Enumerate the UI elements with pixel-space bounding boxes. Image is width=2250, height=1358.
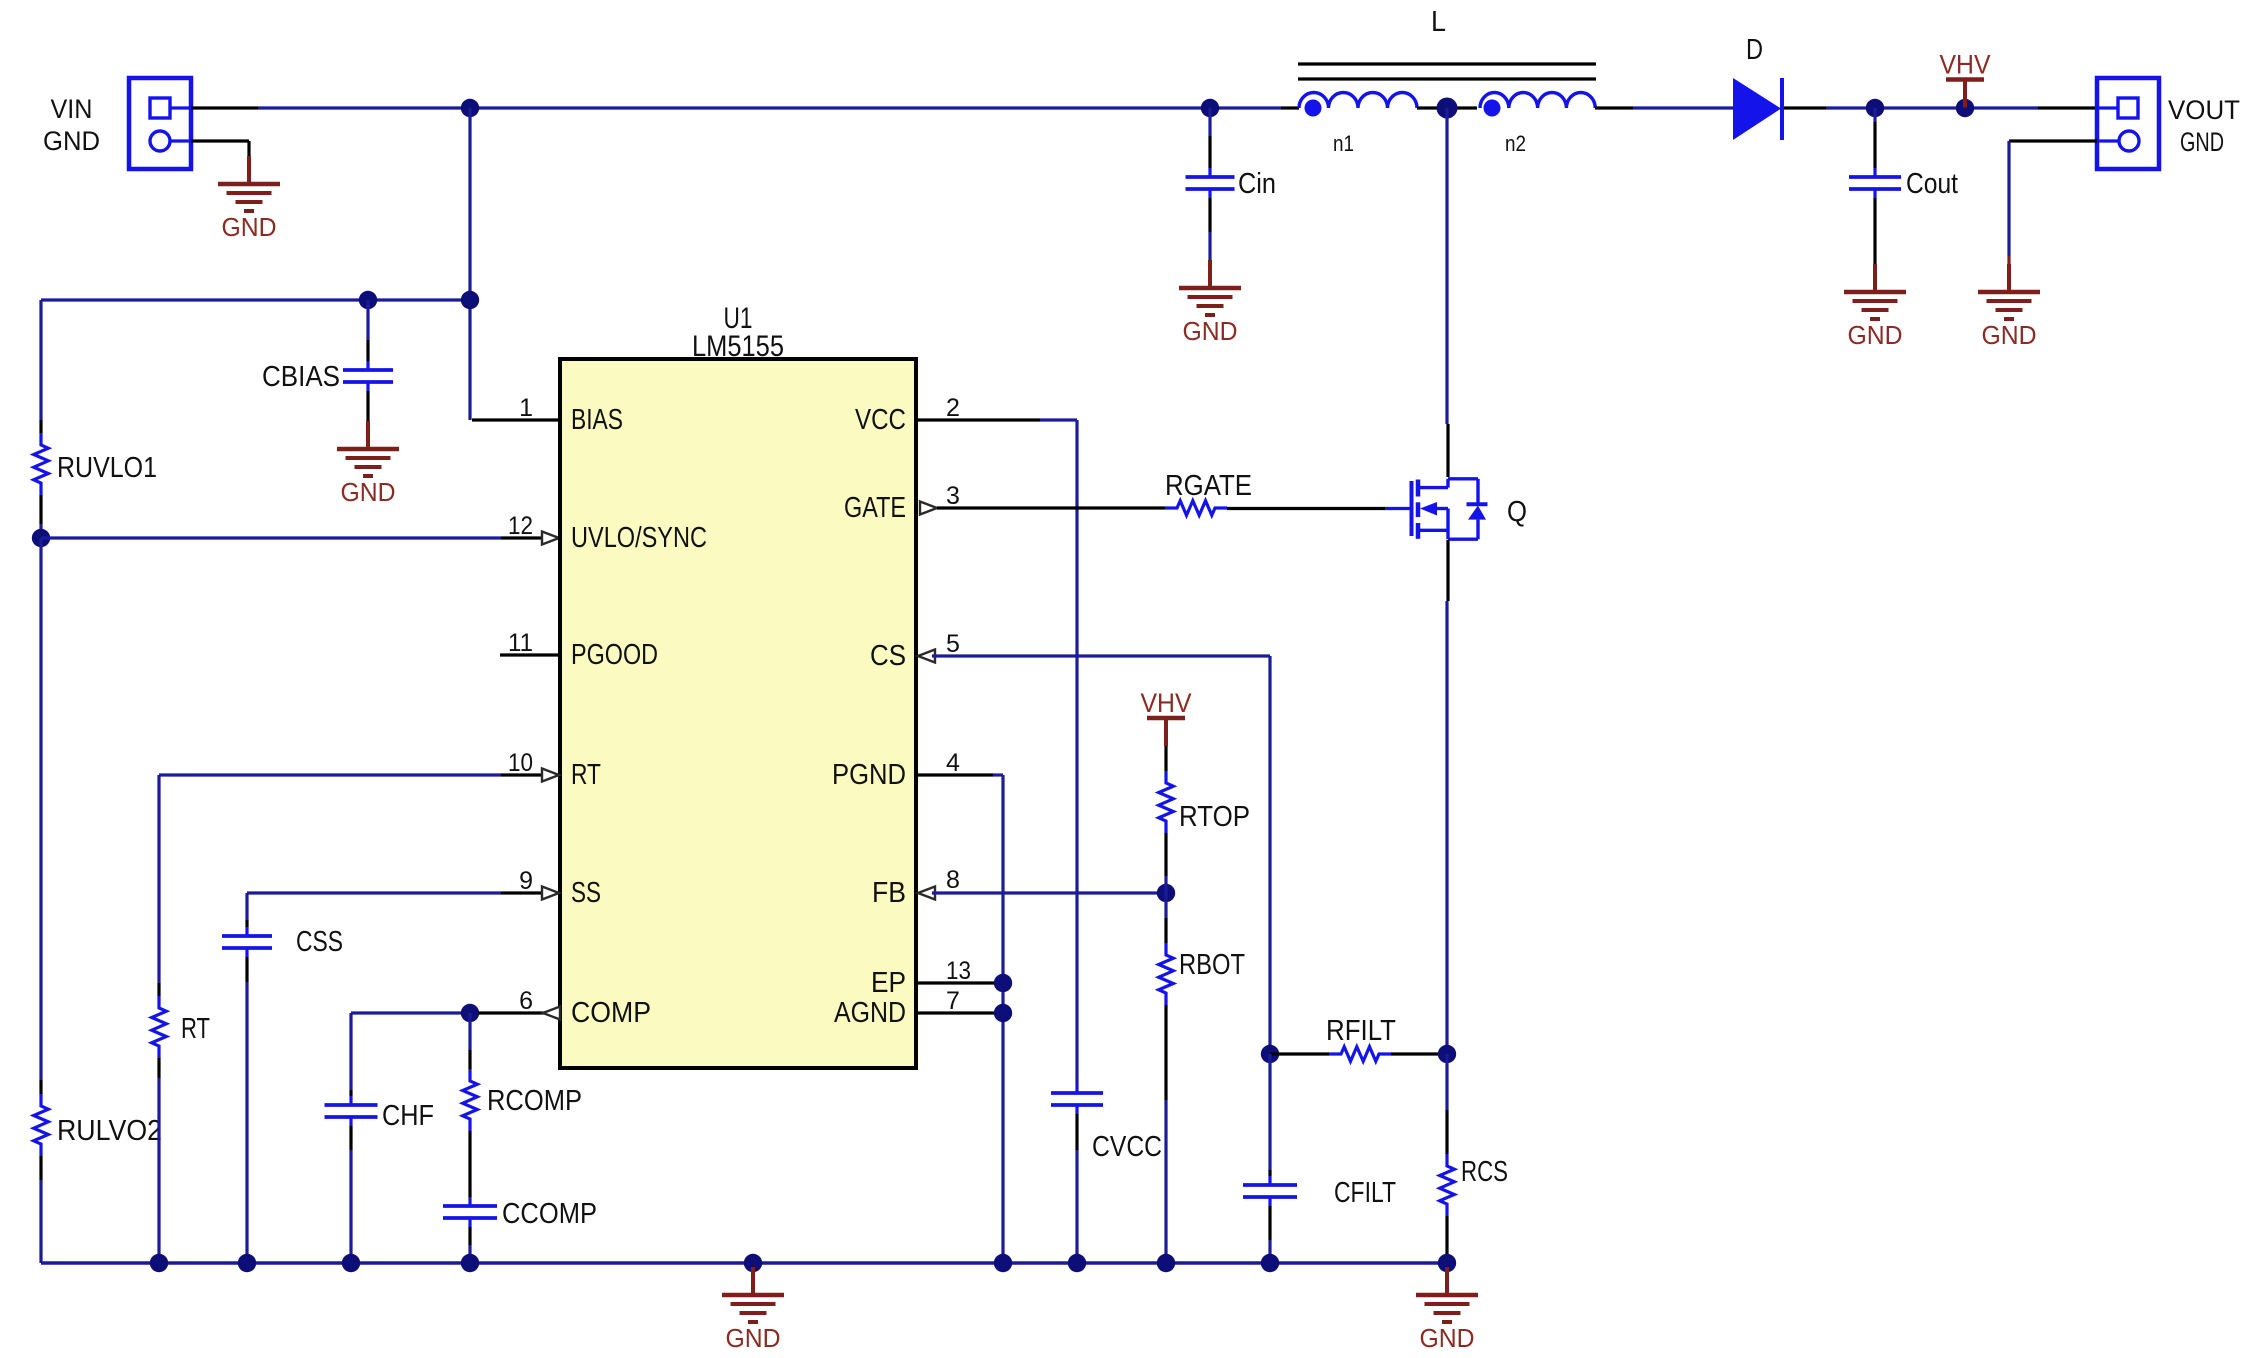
wire source down bbox=[1447, 540, 1448, 1054]
svg-text:GND: GND bbox=[726, 1325, 781, 1353]
wire pin1 BIAS stub bbox=[472, 418, 560, 421]
node junction rail GND tap bbox=[744, 1254, 762, 1272]
svg-text:13: 13 bbox=[946, 957, 971, 985]
svg-text:CHF: CHF bbox=[382, 1100, 434, 1132]
wire COMP stub bbox=[478, 1011, 546, 1014]
wire VOUT GND maroon stub bbox=[2007, 256, 2010, 264]
wire CBIAS lower lead bbox=[366, 391, 369, 421]
node junction VHV tap bbox=[1956, 99, 1974, 117]
svg-text:12: 12 bbox=[508, 512, 533, 540]
label RCS bbox=[1461, 1156, 1508, 1188]
node junction Cout tap bbox=[1866, 99, 1884, 117]
node junction rail CVCC bbox=[1068, 1254, 1086, 1272]
wire PGND net bbox=[916, 773, 1003, 776]
wire RT net bbox=[159, 773, 545, 776]
svg-text:10: 10 bbox=[508, 749, 533, 777]
svg-text:CS: CS bbox=[870, 640, 906, 672]
label n1 bbox=[1333, 131, 1354, 156]
pin 9 arrow SS bbox=[542, 887, 559, 900]
wire GATE to RGATE bbox=[937, 506, 1165, 509]
wire BIAS column vertical bbox=[468, 108, 471, 420]
node junction rail CCOMP bbox=[461, 1254, 479, 1272]
node junction rail RBOT bbox=[1157, 1254, 1175, 1272]
ground GND (CBIAS) bbox=[337, 421, 399, 507]
wire VIN stub black bbox=[191, 106, 258, 109]
label RT bbox=[181, 1013, 210, 1045]
pin name FB bbox=[872, 877, 906, 909]
wire pin7 AGND stub bbox=[916, 1011, 1003, 1014]
svg-text:RGATE: RGATE bbox=[1165, 470, 1252, 502]
resistor RBOT bbox=[1159, 943, 1174, 1005]
node junction BIAS corner bbox=[461, 291, 479, 309]
wire RT column upper bbox=[157, 775, 160, 996]
svg-text:9: 9 bbox=[519, 867, 533, 895]
pin 5 arrow CS bbox=[918, 650, 935, 663]
wire ground rail bbox=[41, 1261, 1447, 1265]
resistor RTOP bbox=[1159, 771, 1174, 833]
svg-text:BIAS: BIAS bbox=[571, 404, 623, 436]
svg-text:D: D bbox=[1746, 34, 1763, 66]
svg-text:GND: GND bbox=[43, 126, 100, 156]
wire diode to VOUT node bbox=[1784, 106, 2038, 109]
inductor winding n1 bbox=[1299, 93, 1417, 109]
wire CFILT upper lead bbox=[1268, 1054, 1271, 1176]
pin 3 arrow GATE bbox=[920, 502, 937, 515]
label GND (VOUT pin) bbox=[2180, 127, 2224, 157]
wire UVLO/SYNC net bbox=[41, 536, 545, 539]
wire RUVLO1 upper lead bbox=[39, 300, 42, 433]
wire pin13 EP stub bbox=[916, 981, 1003, 984]
svg-text:RT: RT bbox=[181, 1013, 210, 1045]
wire VOUT GND pin drop bbox=[2009, 141, 2097, 256]
wire drain from tap bbox=[1447, 108, 1448, 477]
wire top rail VIN to transformer bbox=[258, 106, 1281, 109]
wire n2 to diode bbox=[1595, 106, 1734, 109]
pin name BIAS bbox=[571, 404, 623, 436]
ground GND (Cin) bbox=[1179, 260, 1241, 346]
capacitor CHF bbox=[325, 1096, 378, 1126]
svg-text:CFILT: CFILT bbox=[1334, 1177, 1396, 1209]
wire CBIAS upper lead bbox=[366, 300, 369, 362]
node junction VIN/BIAS column bbox=[461, 99, 479, 117]
capacitor CSS bbox=[222, 927, 272, 957]
ground GND (Cout) bbox=[1844, 264, 1906, 350]
wire RCS lower lead bbox=[1445, 1216, 1448, 1263]
node junction AGND bbox=[994, 1004, 1012, 1022]
svg-text:VIN: VIN bbox=[51, 94, 93, 124]
inductor winding n2 bbox=[1480, 92, 1595, 108]
node junction EP bbox=[994, 974, 1012, 992]
label CHF bbox=[382, 1100, 434, 1132]
wire SS net bbox=[247, 891, 545, 894]
wire RULVO2 lower lead bbox=[39, 1156, 42, 1263]
wire Cin upper lead bbox=[1208, 108, 1211, 168]
svg-text:Cin: Cin bbox=[1238, 168, 1276, 200]
wire pin11 PGOOD stub bbox=[500, 653, 560, 656]
svg-text:RBOT: RBOT bbox=[1179, 949, 1245, 981]
wire RBOT upper lead bbox=[1164, 893, 1167, 943]
svg-text:CSS: CSS bbox=[296, 926, 343, 958]
resistor RGATE bbox=[1165, 501, 1227, 516]
pin name VCC bbox=[855, 404, 906, 436]
label Cin bbox=[1238, 168, 1276, 200]
svg-text:VOUT: VOUT bbox=[2168, 95, 2240, 125]
wire VCC column bbox=[1075, 420, 1078, 1084]
pin number 9 bbox=[519, 867, 533, 895]
svg-text:VHV: VHV bbox=[1940, 50, 1991, 80]
node junction CFILT tap bbox=[1261, 1045, 1279, 1063]
svg-text:LM5155: LM5155 bbox=[692, 330, 784, 363]
pin name PGOOD bbox=[571, 639, 658, 671]
label RFILT bbox=[1326, 1015, 1396, 1047]
wire CSS upper lead bbox=[245, 893, 248, 927]
power symbol VHV (output) bbox=[1940, 50, 1991, 108]
svg-text:Q: Q bbox=[1507, 496, 1527, 528]
wire CS net bbox=[932, 656, 1270, 1054]
wire Cin lower lead bbox=[1208, 198, 1211, 260]
svg-text:GND: GND bbox=[341, 479, 396, 507]
svg-text:Cout: Cout bbox=[1906, 168, 1958, 200]
svg-text:RTOP: RTOP bbox=[1179, 801, 1250, 833]
node junction rail RT bbox=[150, 1254, 168, 1272]
label CBIAS bbox=[262, 361, 340, 393]
wire CHF lower lead bbox=[349, 1126, 352, 1263]
svg-text:CCOMP: CCOMP bbox=[502, 1198, 597, 1230]
svg-text:GND: GND bbox=[1420, 1325, 1475, 1353]
capacitor CBIAS bbox=[343, 361, 393, 391]
pin number 10 bbox=[508, 749, 533, 777]
svg-text:RFILT: RFILT bbox=[1326, 1015, 1396, 1047]
svg-text:FB: FB bbox=[872, 877, 906, 909]
connector J1 VIN/GND bbox=[129, 78, 191, 169]
wire RT column lower bbox=[157, 1058, 160, 1263]
label CFILT bbox=[1334, 1177, 1396, 1209]
node junction rail CHF bbox=[342, 1254, 360, 1272]
svg-text:CVCC: CVCC bbox=[1092, 1131, 1162, 1163]
phase dot n1 bbox=[1305, 100, 1322, 117]
pin number 5 bbox=[946, 630, 960, 658]
wire VCC net horizontal bbox=[916, 418, 1077, 421]
label RUVLO1 bbox=[57, 452, 157, 484]
resistor RCS bbox=[1440, 1154, 1455, 1216]
svg-text:PGOOD: PGOOD bbox=[571, 639, 658, 671]
wire CHF upper lead bbox=[349, 1013, 352, 1096]
wire CCOMP lower lead bbox=[468, 1227, 471, 1263]
capacitor CCOMP bbox=[443, 1197, 497, 1227]
pin name GATE bbox=[844, 492, 906, 524]
capacitor Cin bbox=[1186, 168, 1235, 198]
svg-text:5: 5 bbox=[946, 630, 960, 658]
connector J2 VOUT/GND bbox=[2097, 78, 2159, 169]
label n2 bbox=[1505, 131, 1526, 156]
pin number 2 bbox=[946, 394, 960, 422]
wire CFILT lower lead bbox=[1268, 1206, 1271, 1263]
svg-text:VCC: VCC bbox=[855, 404, 906, 436]
svg-text:SS: SS bbox=[571, 877, 601, 909]
svg-text:COMP: COMP bbox=[571, 997, 651, 1029]
svg-text:VHV: VHV bbox=[1141, 688, 1192, 718]
label RGATE bbox=[1165, 470, 1252, 502]
pin name CS bbox=[870, 640, 906, 672]
pin number 7 bbox=[946, 987, 960, 1015]
node junction CBIAS tap bbox=[359, 291, 377, 309]
pin name AGND bbox=[834, 997, 906, 1029]
op-amp U1 LM5155 body bbox=[560, 359, 916, 1068]
svg-text:7: 7 bbox=[946, 987, 960, 1015]
svg-text:RT: RT bbox=[571, 759, 601, 791]
svg-text:RCOMP: RCOMP bbox=[487, 1085, 582, 1117]
label RBOT bbox=[1179, 949, 1245, 981]
pin 8 arrow FB bbox=[918, 887, 935, 900]
svg-text:PGND: PGND bbox=[832, 759, 906, 791]
diode D bbox=[1733, 78, 1782, 140]
pin name COMP bbox=[571, 997, 651, 1029]
wire RUVLO1 lower lead bbox=[39, 495, 42, 538]
inductor L core lines bbox=[1298, 64, 1596, 79]
wire RCS upper lead bbox=[1445, 1054, 1448, 1154]
wire RFILT left lead bbox=[1270, 1052, 1329, 1055]
wire RGATE to MOSFET gate bbox=[1227, 507, 1385, 510]
resistor RT bbox=[152, 996, 167, 1058]
power symbol VHV (RTOP) bbox=[1141, 688, 1192, 746]
svg-text:GND: GND bbox=[1183, 318, 1238, 346]
node junction transformer center tap bbox=[1437, 98, 1458, 119]
wire COMP net bbox=[351, 1011, 470, 1014]
resistor RFILT bbox=[1329, 1047, 1391, 1062]
svg-text:GND: GND bbox=[222, 214, 277, 242]
label CSS bbox=[296, 926, 343, 958]
node junction rail CSS bbox=[238, 1254, 256, 1272]
label GND (VIN pin) bbox=[43, 126, 100, 156]
wire FB net bbox=[932, 891, 1166, 894]
wire RTOP lower lead bbox=[1164, 833, 1167, 893]
svg-text:n1: n1 bbox=[1333, 131, 1354, 156]
wire Cout lower lead bbox=[1873, 198, 1876, 264]
wire center tap bbox=[1417, 106, 1477, 109]
pin name EP bbox=[871, 967, 906, 999]
node junction rail PGND bbox=[994, 1254, 1012, 1272]
pin 10 arrow RT bbox=[542, 769, 559, 782]
svg-text:3: 3 bbox=[946, 482, 960, 510]
pin number 13 bbox=[946, 957, 971, 985]
pin name PGND bbox=[832, 759, 906, 791]
svg-text:CBIAS: CBIAS bbox=[262, 361, 340, 393]
label L bbox=[1431, 6, 1446, 38]
pin number 8 bbox=[946, 866, 960, 894]
label LM5155 bbox=[692, 330, 784, 363]
pin number 4 bbox=[946, 749, 960, 777]
svg-text:RCS: RCS bbox=[1461, 1156, 1508, 1188]
label D bbox=[1746, 34, 1763, 66]
pin number 6 bbox=[519, 987, 533, 1015]
wire RTOP upper lead bbox=[1164, 746, 1167, 771]
wire RULVO2 upper lead bbox=[39, 538, 42, 1094]
pin number 12 bbox=[508, 512, 533, 540]
resistor RULVO2 bbox=[34, 1094, 49, 1156]
label Q bbox=[1507, 496, 1527, 528]
svg-text:EP: EP bbox=[871, 967, 906, 999]
node junction Cin tap bbox=[1201, 99, 1219, 117]
svg-text:GND: GND bbox=[1982, 322, 2037, 350]
pin number 3 bbox=[946, 482, 960, 510]
wire PGND column bbox=[1001, 775, 1004, 1263]
svg-text:4: 4 bbox=[946, 749, 960, 777]
label RTOP bbox=[1179, 801, 1250, 833]
pin 12 arrow UVLO/SYNC bbox=[542, 532, 559, 545]
resistor RUVLO1 bbox=[34, 433, 49, 495]
svg-text:RUVLO1: RUVLO1 bbox=[57, 452, 157, 484]
label Cout bbox=[1906, 168, 1958, 200]
pin name UVLO/SYNC bbox=[571, 522, 707, 554]
pin name RT bbox=[571, 759, 601, 791]
wire Cout upper lead bbox=[1873, 108, 1876, 168]
pin 6 arrow COMP bbox=[543, 1007, 560, 1020]
pin number 1 bbox=[519, 394, 533, 422]
ground GND (VOUT) bbox=[1978, 264, 2040, 350]
wire stub into n1 bbox=[1281, 106, 1299, 109]
svg-text:GATE: GATE bbox=[844, 492, 906, 524]
wire VIN GND pin to ground bbox=[191, 141, 249, 156]
capacitor CFILT bbox=[1243, 1176, 1297, 1206]
label CCOMP bbox=[502, 1198, 597, 1230]
ground GND (VIN) bbox=[218, 156, 280, 242]
node junction rail CFILT bbox=[1261, 1254, 1279, 1272]
wire BIAS row horizontal bbox=[41, 298, 470, 301]
wire CSS lower lead bbox=[245, 957, 248, 1263]
svg-text:6: 6 bbox=[519, 987, 533, 1015]
label VOUT bbox=[2168, 95, 2240, 125]
svg-text:11: 11 bbox=[508, 629, 533, 657]
pin number 11 bbox=[508, 629, 533, 657]
node junction FB divider bbox=[1157, 884, 1175, 902]
label RCOMP bbox=[487, 1085, 582, 1117]
label VIN bbox=[51, 94, 93, 124]
wire RFILT right lead bbox=[1391, 1052, 1447, 1055]
wire CVCC lower lead bbox=[1075, 1114, 1078, 1263]
label U1 bbox=[724, 302, 753, 335]
node junction COMP bbox=[461, 1004, 479, 1022]
node junction rail RCS bbox=[1438, 1254, 1456, 1272]
capacitor Cout bbox=[1849, 168, 1901, 198]
ground GND (rail right) bbox=[1416, 1267, 1478, 1353]
wire RCOMP to CCOMP bbox=[468, 1131, 471, 1197]
svg-text:8: 8 bbox=[946, 866, 960, 894]
svg-text:GND: GND bbox=[2180, 127, 2224, 157]
svg-text:AGND: AGND bbox=[834, 997, 906, 1029]
svg-text:GND: GND bbox=[1848, 322, 1903, 350]
pin name SS bbox=[571, 877, 601, 909]
wire RCOMP upper lead bbox=[468, 1013, 471, 1069]
svg-text:n2: n2 bbox=[1505, 131, 1526, 156]
node junction RCS tap bbox=[1438, 1045, 1456, 1063]
node junction UVLO divider bbox=[32, 529, 50, 547]
svg-text:2: 2 bbox=[946, 394, 960, 422]
wire RBOT lower lead bbox=[1164, 1005, 1167, 1263]
capacitor CVCC bbox=[1051, 1084, 1103, 1114]
label CVCC bbox=[1092, 1131, 1162, 1163]
svg-text:UVLO/SYNC: UVLO/SYNC bbox=[571, 522, 707, 554]
svg-text:RULVO2: RULVO2 bbox=[57, 1115, 162, 1147]
svg-text:L: L bbox=[1431, 6, 1446, 38]
transistor Q bbox=[1385, 479, 1488, 539]
phase dot n2 bbox=[1484, 100, 1501, 117]
resistor RCOMP bbox=[463, 1069, 478, 1131]
svg-text:1: 1 bbox=[519, 394, 533, 422]
ground GND (rail center) bbox=[722, 1267, 784, 1353]
wire stub into VOUT bbox=[2038, 106, 2097, 109]
label RULVO2 bbox=[57, 1115, 162, 1147]
